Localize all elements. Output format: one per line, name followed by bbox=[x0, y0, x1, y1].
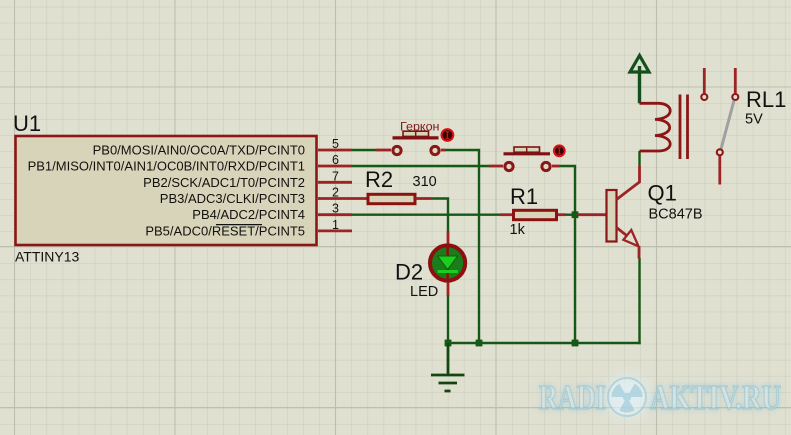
wire pin5 to reed switch bbox=[352, 149, 376, 151]
pushbutton actuator bar bbox=[504, 152, 551, 155]
resistor R1 body bbox=[514, 210, 557, 219]
relay NC contact terminal bbox=[732, 94, 738, 100]
svg-text:1: 1 bbox=[332, 218, 339, 232]
svg-text:PB5/ADC0/RESET/PCINT5: PB5/ADC0/RESET/PCINT5 bbox=[145, 223, 305, 238]
pin 5 stub PB0 bbox=[318, 149, 352, 152]
svg-text:PB1/MISO/INT0/AIN1/OC0B/INT0/R: PB1/MISO/INT0/AIN1/OC0B/INT0/RXD/PCINT1 bbox=[28, 159, 305, 174]
resistor R2 body bbox=[368, 194, 415, 203]
junction reed vertical/rail bbox=[476, 340, 483, 347]
svg-text:5V: 5V bbox=[745, 112, 763, 128]
LED top pin stub bbox=[447, 231, 450, 246]
wire reed switch right to ground rail (vertical at x=479) bbox=[446, 150, 479, 343]
pushbutton right pin stub bbox=[552, 165, 560, 168]
relay NO contact terminal bbox=[701, 94, 707, 100]
reed switch right terminal bbox=[431, 146, 439, 154]
svg-text:Q1: Q1 bbox=[648, 181, 677, 206]
LED bottom pin stub bbox=[447, 280, 450, 296]
wire pushbutton right down to rail (vertical at x=575) bbox=[560, 166, 575, 343]
svg-text:R1: R1 bbox=[510, 184, 538, 209]
svg-text:2: 2 bbox=[332, 186, 339, 200]
pin 1 stub PB5 bbox=[318, 229, 352, 232]
junction LED/ground bbox=[445, 340, 452, 347]
ground bbox=[431, 343, 465, 391]
Q1 collector bbox=[617, 166, 640, 200]
pushbutton left pin stub bbox=[489, 165, 503, 168]
svg-text:BC847B: BC847B bbox=[649, 207, 703, 223]
svg-text:6: 6 bbox=[332, 153, 339, 167]
wire LED bottom to rail bbox=[447, 295, 449, 343]
relay NO contact wire bbox=[703, 68, 706, 93]
reed switch actuator bar bbox=[393, 136, 439, 139]
pushbutton actuator marker bbox=[554, 145, 565, 156]
Q1 base pin stub bbox=[578, 213, 607, 216]
svg-text:PB0/MOSI/AIN0/OC0A/TXD/PCINT0: PB0/MOSI/AIN0/OC0A/TXD/PCINT0 bbox=[93, 143, 305, 158]
svg-text:AKTIV.RU: AKTIV.RU bbox=[650, 378, 781, 417]
LED D2 body bbox=[430, 245, 465, 280]
svg-text:LED: LED bbox=[410, 284, 438, 300]
junction R1/base/button vertical bbox=[572, 211, 579, 218]
wire R1 to Q1 base bbox=[566, 213, 578, 215]
wire R2 out to LED top bbox=[432, 199, 449, 232]
Q1 emitter arrow bbox=[623, 230, 638, 246]
svg-text:ATTINY13: ATTINY13 bbox=[15, 249, 80, 265]
wire pin6 to pushbutton bbox=[352, 165, 489, 167]
svg-text:1k: 1k bbox=[510, 222, 526, 238]
svg-text:PB2/SCK/ADC1/T0/PCINT2: PB2/SCK/ADC1/T0/PCINT2 bbox=[143, 175, 305, 190]
reed switch left pin stub bbox=[376, 149, 391, 152]
svg-text:5: 5 bbox=[332, 137, 339, 151]
relay core bars bbox=[679, 95, 682, 160]
IC U1 body bbox=[16, 136, 317, 245]
svg-text:D2: D2 bbox=[395, 260, 423, 285]
svg-text:RADI: RADI bbox=[539, 378, 606, 417]
svg-text:PB4/ADC2/PCINT4: PB4/ADC2/PCINT4 bbox=[192, 207, 305, 222]
pushbutton cap bbox=[514, 147, 540, 152]
reed switch actuator marker bbox=[442, 129, 454, 141]
R2 right pin stub bbox=[416, 197, 432, 200]
Q1 base bar bbox=[607, 190, 617, 242]
svg-text:RL1: RL1 bbox=[746, 87, 786, 112]
wire emitter to rail bbox=[638, 258, 640, 344]
relay common terminal bbox=[717, 149, 723, 155]
power arrow bbox=[630, 56, 649, 104]
relay coil bbox=[640, 103, 671, 151]
reed switch right pin stub bbox=[441, 149, 446, 152]
svg-text:R2: R2 bbox=[365, 167, 393, 192]
Q1 emitter bbox=[617, 228, 628, 236]
relay NC contact wire bbox=[734, 68, 737, 93]
pin 2 stub PB3 bbox=[318, 197, 367, 200]
junction button vertical/rail bbox=[572, 340, 579, 347]
reed switch left terminal bbox=[393, 146, 401, 154]
svg-text:7: 7 bbox=[332, 169, 339, 183]
ground rail bbox=[448, 342, 641, 344]
svg-text:3: 3 bbox=[332, 202, 339, 216]
svg-text:PB3/ADC3/CLKI/PCINT3: PB3/ADC3/CLKI/PCINT3 bbox=[160, 191, 305, 206]
svg-text:310: 310 bbox=[413, 174, 437, 190]
pushbutton right terminal bbox=[542, 162, 550, 170]
relay blade bbox=[721, 101, 734, 150]
pin 3 stub PB4 bbox=[318, 213, 352, 216]
wire collector to relay coil bbox=[638, 151, 640, 167]
RESET overline bbox=[216, 224, 262, 226]
pin 6 stub PB1 bbox=[318, 165, 352, 168]
pushbutton left terminal bbox=[505, 162, 513, 170]
R1 left pin stub bbox=[500, 213, 512, 216]
relay common wire bbox=[718, 156, 721, 185]
R1 right pin stub bbox=[558, 213, 566, 216]
pin 7 stub PB2 bbox=[318, 181, 352, 184]
wire pin3 to R1 bbox=[352, 213, 500, 215]
reed switch cap bbox=[403, 131, 429, 136]
svg-text:U1: U1 bbox=[13, 111, 41, 136]
